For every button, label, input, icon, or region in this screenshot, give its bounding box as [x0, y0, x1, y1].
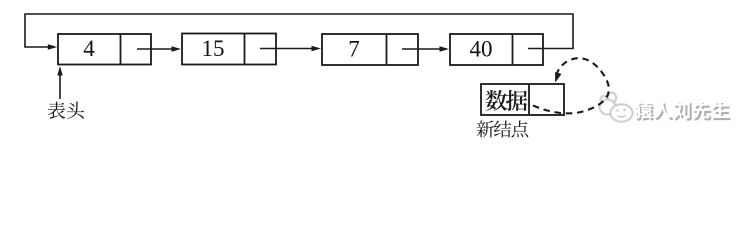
- node 1 (data 4 | next): [58, 34, 151, 65]
- svg-text:4: 4: [83, 36, 95, 61]
- label 表头 (list head): [48, 102, 66, 119]
- node 3 (data 7 | next): [322, 34, 418, 65]
- label 数据 (data) inside new node: [486, 90, 507, 111]
- node 2 (data 15 | next): [182, 34, 276, 65]
- svg-text:40: 40: [470, 37, 493, 62]
- arrowhead into node 1: [48, 44, 58, 49]
- node 4 (data 40 | next): [450, 34, 543, 65]
- head pointer arrow (points up at node 1): [59, 72, 61, 100]
- wire: node 1 next-pointer arrow to node 2: [137, 48, 174, 50]
- svg-text:7: 7: [348, 37, 360, 62]
- dashed self-loop arrow from new node next-field back to itself: [533, 58, 609, 113]
- watermark text 猿人刘先生: [636, 103, 654, 121]
- wire: circular link from node 4 next-field up and across top back to node 1: [25, 14, 573, 49]
- label 新结点 (new node): [477, 121, 494, 138]
- new node box (数据 | next): [481, 84, 564, 115]
- wire: node 2 next-pointer arrow to node 3: [260, 48, 314, 50]
- wire: node 3 next-pointer arrow to node 4: [402, 48, 442, 50]
- svg-text:15: 15: [202, 36, 225, 61]
